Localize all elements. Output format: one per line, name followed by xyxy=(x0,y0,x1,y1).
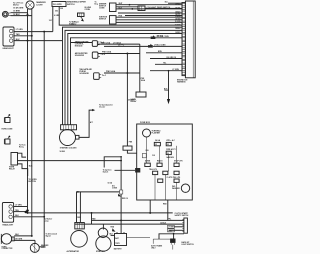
labels on alternator wires xyxy=(77,217,81,219)
inline connector on y37.8 xyxy=(151,37,156,40)
wire starter drop xyxy=(102,224,104,229)
svg-text:Signal: Signal xyxy=(46,235,52,237)
label pnk above inline box xyxy=(129,142,133,144)
wire starter to battery xyxy=(111,234,115,236)
wire: vertical bus A xyxy=(27,9,29,213)
svg-text:LT GRN: LT GRN xyxy=(172,69,179,71)
wire: lower headlight 2 xyxy=(14,211,28,213)
junction gnd bus A xyxy=(27,40,29,42)
wire step from relay xyxy=(18,153,27,157)
svg-text:CONNECTOR: CONNECTOR xyxy=(2,248,14,250)
junction x121 y156.8 xyxy=(120,156,122,158)
wiper washer circle xyxy=(181,184,189,192)
svg-text:W S WPR: W S WPR xyxy=(53,4,62,6)
label above y37.8 wire xyxy=(157,36,164,38)
text: w/s washer xyxy=(172,186,176,188)
labels lower headlight xyxy=(15,205,22,207)
wire: dimmer 2 to coolant switch xyxy=(116,6,138,8)
harness wire y13 xyxy=(118,12,182,14)
svg-text:20 BRN: 20 BRN xyxy=(128,99,135,101)
junction horn bus B xyxy=(31,235,33,237)
text: air diverter solenoid xyxy=(75,52,88,55)
text: to turn signal xyxy=(69,21,75,23)
wire into bulkhead y53 xyxy=(146,52,182,54)
label near riser xyxy=(49,20,53,22)
starter solenoid xyxy=(98,228,108,238)
label tail lps xyxy=(149,168,157,171)
wire: column 3 to bulkhead xyxy=(68,34,182,125)
text: to horn button xyxy=(29,179,38,181)
inline connector on y46.4 xyxy=(148,45,153,48)
harness wire y15.5 xyxy=(125,15,182,17)
svg-text:TO HORN: TO HORN xyxy=(29,179,38,181)
horn relay box xyxy=(136,92,146,97)
text: steering column xyxy=(60,147,77,149)
label blk starter xyxy=(110,233,114,235)
svg-text:CONN: CONN xyxy=(85,9,91,11)
wire: vertical bus B xyxy=(31,8,33,236)
svg-text:DK GRN 18: DK GRN 18 xyxy=(167,57,176,59)
flasher circle xyxy=(143,129,151,137)
wire ignition riser xyxy=(104,157,121,168)
coolant temp switch connector xyxy=(138,6,145,11)
wire y224.1 horizontal xyxy=(75,223,184,225)
marker light lamp xyxy=(26,1,34,9)
steering column body xyxy=(60,130,76,146)
labels bottom right wires xyxy=(168,219,172,221)
wire vertical x127.4 xyxy=(126,54,128,147)
inline connector box on x127.4 xyxy=(123,146,132,150)
fusebox internal wire 1 xyxy=(146,137,148,163)
label ppl on y46.4 xyxy=(118,45,125,47)
junction x121 y160.6 xyxy=(120,160,122,162)
svg-text:RED 10: RED 10 xyxy=(122,198,128,200)
label red x91 xyxy=(92,219,96,221)
text: engine ignition harness xyxy=(177,79,188,81)
wire: column 2 to bulkhead xyxy=(65,30,182,124)
wire: ignition 2 xyxy=(116,19,182,21)
fuse 11 xyxy=(174,179,179,182)
svg-text:FUSE BOX: FUSE BOX xyxy=(140,122,151,124)
wire bend into y213 xyxy=(14,212,28,213)
svg-text:YEL: YEL xyxy=(163,63,166,65)
svg-text:LT BLU CONN: LT BLU CONN xyxy=(154,45,166,47)
svg-text:CLSTR PNL LPS: CLSTR PNL LPS xyxy=(167,177,182,179)
text: to marker lamp xyxy=(44,218,53,220)
text: to horn relay xyxy=(19,145,26,147)
wire to backup switch xyxy=(173,234,175,239)
svg-text:WINDSHIELD WIPER: WINDSHIELD WIPER xyxy=(67,2,86,4)
fusebox internal wire 4 xyxy=(168,155,170,172)
fusebox internal wire 3 xyxy=(175,146,177,163)
label box lt grn backup xyxy=(168,225,175,228)
svg-text:PURGE: PURGE xyxy=(79,71,86,73)
wire x121 down to battery junction xyxy=(120,194,122,220)
label pnk y73 xyxy=(106,70,116,73)
label mid left xyxy=(60,150,66,153)
wire y170.3 into fusebox xyxy=(115,169,136,171)
wire y46.4 harness xyxy=(104,45,148,47)
wire elbow to horn button xyxy=(18,164,28,176)
bulkhead shell inner edge xyxy=(192,1,194,78)
svg-text:HORN CONN: HORN CONN xyxy=(2,129,14,131)
label ign fuse xyxy=(146,150,150,152)
wire y220.4 horizontal xyxy=(92,219,184,221)
svg-text:BLK: BLK xyxy=(16,39,20,41)
svg-text:20 PPL: 20 PPL xyxy=(118,45,125,47)
labels dome radio stop xyxy=(145,161,151,163)
headlight connector lower xyxy=(2,203,13,223)
svg-text:LIGHT SWITCH: LIGHT SWITCH xyxy=(182,244,195,246)
svg-text:CONN: CONN xyxy=(99,8,105,10)
wire: headlight hi beam xyxy=(14,31,53,33)
wire: hi beam riser to wiper switch xyxy=(52,7,54,32)
wire y73 horizontal xyxy=(104,72,140,74)
wire: lamp to bus B xyxy=(11,15,32,17)
label 6 grn xyxy=(54,15,60,17)
text: to directional signal xyxy=(46,232,58,235)
text: to wiper motor xyxy=(72,22,80,24)
svg-text:LT GRN: LT GRN xyxy=(16,29,23,31)
fuse 9 xyxy=(174,171,179,174)
wire: dimmer 3 xyxy=(116,8,182,10)
text: horn connector xyxy=(2,246,8,248)
wire backup 1 xyxy=(175,226,184,228)
wire label 18 dk grn xyxy=(13,8,24,10)
wire: alternator feed xyxy=(77,192,120,223)
label cig xyxy=(152,155,156,157)
wire: fusebox bottom to y213 junction xyxy=(149,200,151,214)
windshield wiper switch connector xyxy=(52,2,66,7)
arrow from inline connector xyxy=(81,17,84,20)
text: starter xyxy=(96,250,105,253)
svg-text:Relay: Relay xyxy=(19,146,24,148)
wire vertical x121.1 down xyxy=(120,157,122,190)
backup connector strip xyxy=(184,218,188,233)
text: battery label below xyxy=(114,247,123,250)
svg-text:DIMMER: DIMMER xyxy=(99,4,107,6)
bottom marker lamp xyxy=(30,243,39,252)
label blk dimmer xyxy=(119,7,123,9)
label 090 xyxy=(60,8,63,10)
junction marks y213 xyxy=(91,212,93,214)
bus C to lamp xyxy=(39,246,44,248)
text: alternator xyxy=(67,250,80,253)
svg-text:DOME: DOME xyxy=(145,161,151,163)
wire: column 4 to bulkhead xyxy=(71,38,151,125)
svg-text:LT GRN: LT GRN xyxy=(15,205,22,207)
fuse 4 xyxy=(145,163,151,166)
junction on y70.7 xyxy=(168,70,170,72)
text: horn conn xyxy=(2,129,14,131)
dimmer connector upper xyxy=(110,3,117,12)
svg-text:Lamp: Lamp xyxy=(44,220,49,222)
svg-text:CONTROL: CONTROL xyxy=(75,44,85,46)
svg-text:IN-LINE: IN-LINE xyxy=(85,7,92,9)
text: horn relay xyxy=(131,99,137,101)
svg-text:SWITCH: SWITCH xyxy=(99,6,107,8)
label 093 xyxy=(55,10,58,12)
long wire y160.6 xyxy=(18,160,122,162)
fuse 1 xyxy=(154,142,160,145)
bulkhead pin strip xyxy=(182,3,185,76)
label red arrow battery xyxy=(111,226,115,228)
text: tailgate air purge solenoid xyxy=(79,68,92,71)
junction lo beam bus B xyxy=(31,35,33,37)
svg-text:SWITCH: SWITCH xyxy=(67,4,75,6)
svg-text:SOLENOID: SOLENOID xyxy=(75,55,85,57)
steering column connector strip xyxy=(61,125,77,130)
text: marker light xyxy=(36,1,46,4)
small component inside fusebox left xyxy=(142,153,146,157)
text: back-up light switch xyxy=(182,241,191,244)
fuse 5 xyxy=(157,163,162,166)
text: coolant temp switch xyxy=(147,6,171,9)
fuse 6 xyxy=(174,163,179,166)
text: to lt front marker xyxy=(13,1,24,4)
junction battery drop xyxy=(120,219,122,221)
wire: alternator feed 2 branch xyxy=(79,192,81,223)
wire into bulkhead y64.3 xyxy=(155,63,182,65)
wire: wiper v2 to harness y25.1 xyxy=(59,7,182,26)
wire y53.5 harness xyxy=(98,53,140,55)
label wht dimmer xyxy=(119,3,124,5)
wire labels at bulkhead xyxy=(175,3,181,5)
svg-text:DK GRN: DK GRN xyxy=(15,239,23,241)
fusebox internal wire 7 xyxy=(175,182,177,200)
wire: lower headlight 3 xyxy=(14,216,45,218)
inline connector icon 2 xyxy=(5,139,10,144)
wire backup 3 xyxy=(159,234,184,239)
backup light switch xyxy=(170,239,175,243)
label 14 ga near x108 xyxy=(108,181,113,184)
svg-text:IGNITION: IGNITION xyxy=(99,17,108,19)
text: dimmer switch xyxy=(99,4,107,6)
svg-text:BUTTON: BUTTON xyxy=(29,181,37,183)
junction blk at bus C xyxy=(43,216,45,218)
wire auto trans bracket xyxy=(153,238,170,240)
wire down from bulkhead with arrow xyxy=(168,71,170,99)
text: headlight upper xyxy=(3,47,15,50)
junction backup xyxy=(173,233,175,235)
junction alternator feed xyxy=(77,191,79,193)
svg-text:12 BLK: 12 BLK xyxy=(160,222,167,224)
fuse box outline xyxy=(137,124,193,200)
arrow on A/T wire xyxy=(92,109,95,111)
svg-text:To Horn: To Horn xyxy=(19,145,26,147)
label red 12ga xyxy=(101,41,111,44)
alternator body xyxy=(71,231,88,248)
label after y46.4 connector xyxy=(154,45,166,47)
wire horn 1 xyxy=(14,235,32,237)
wire: ignition 1 xyxy=(116,16,182,18)
label after y37.8 connector xyxy=(157,36,170,38)
svg-text:LIGHT: LIGHT xyxy=(36,4,43,6)
fuse 3 xyxy=(166,151,171,154)
label red below fusebox xyxy=(163,203,167,205)
battery xyxy=(115,234,127,246)
inline connector icon 1 xyxy=(5,118,10,123)
starter body xyxy=(96,236,111,251)
svg-text:SPEEDOMETER: SPEEDOMETER xyxy=(75,42,89,44)
fusebox internal wire 5 xyxy=(154,175,156,200)
svg-text:093: 093 xyxy=(55,10,58,12)
label gauges xyxy=(166,156,174,159)
horn relay connector block xyxy=(11,153,18,166)
label 24 ga xyxy=(155,139,161,142)
wire from coolant switch xyxy=(145,7,182,9)
wire below backup switch xyxy=(172,245,174,250)
svg-text:MODULE: MODULE xyxy=(75,46,84,48)
text: to ignition switch xyxy=(103,168,112,171)
label ignition wires xyxy=(119,16,123,18)
text: turn haz flasher xyxy=(152,129,162,132)
svg-text:DK GRN CONN: DK GRN CONN xyxy=(157,36,170,38)
labels headlight upper xyxy=(16,29,23,31)
svg-text:090: 090 xyxy=(60,8,63,10)
svg-text:Eng: Eng xyxy=(95,3,98,5)
wire battery drop xyxy=(120,220,122,233)
text: windshield wiper switch xyxy=(67,2,86,4)
label pnk 16ga vertical xyxy=(141,78,145,80)
component: air purge connector xyxy=(94,73,100,80)
junction y53.5 xyxy=(126,53,128,55)
inline connector symbol x121 y190 xyxy=(120,190,123,194)
junction blob x27.5 y212 xyxy=(25,211,28,214)
wire horn 2 xyxy=(14,239,35,241)
text: marker light bottom xyxy=(41,244,49,247)
wire: lamp to bus A xyxy=(11,12,28,14)
fuse 2 xyxy=(166,142,171,145)
wire backup 2 xyxy=(169,229,184,231)
label a/c conn xyxy=(112,185,116,188)
svg-text:To Marker: To Marker xyxy=(44,218,53,220)
svg-text:SWITCH: SWITCH xyxy=(99,19,107,21)
wire x127 into fusebox xyxy=(127,150,136,153)
wire x91.5 drop xyxy=(91,213,93,224)
wire to A/T switch xyxy=(79,110,93,137)
text: headlight lower xyxy=(2,224,14,227)
text: ignition switch conn xyxy=(99,17,108,19)
label blk 10ga xyxy=(164,88,168,90)
wire: vertical bus C xyxy=(43,32,45,247)
fuse 7 xyxy=(153,171,158,174)
fuse 10 xyxy=(158,179,163,182)
wire label 18 blk xyxy=(13,14,20,16)
long horizontal y213.6 xyxy=(28,212,173,214)
wire: ignition 3 xyxy=(116,21,182,23)
svg-text:To: To xyxy=(95,2,97,4)
label blk xyxy=(29,165,33,167)
svg-text:CONN: CONN xyxy=(112,188,118,190)
horn xyxy=(1,234,11,244)
wire: fusebox bottom red xyxy=(167,200,169,220)
headlight connector upper xyxy=(3,27,14,46)
svg-text:STOP LPS: STOP LPS xyxy=(174,161,183,163)
label box grn backup xyxy=(168,229,175,232)
label clstr pnl lps xyxy=(167,177,182,179)
text: to speedometer cluster xyxy=(99,104,113,107)
wire into bulkhead y58.5 xyxy=(150,58,182,60)
svg-text:6 GRN: 6 GRN xyxy=(54,15,60,17)
label htr a-c xyxy=(166,139,175,142)
text: in-line conn xyxy=(85,7,92,9)
svg-text:HORN: HORN xyxy=(2,246,8,248)
text: horn relay left xyxy=(9,167,15,169)
text: speedometer control module xyxy=(75,42,89,44)
label pwr accy xyxy=(166,148,176,151)
wire: dimmer 1 xyxy=(116,4,182,6)
junction bus C xyxy=(43,31,45,33)
component: air diverter connector xyxy=(92,52,98,58)
label pnk 14ga y53 xyxy=(102,51,112,54)
svg-text:STEERING COLUMN: STEERING COLUMN xyxy=(60,147,77,149)
wire into bulkhead y70.7 xyxy=(150,70,182,72)
wire: stub to module xyxy=(71,42,93,44)
alternator top block xyxy=(75,223,85,229)
wire x139.8 to horn relay xyxy=(139,44,141,92)
wire into bottom lamp xyxy=(34,240,36,243)
wire: lower headlight 1 xyxy=(14,206,28,208)
text: clutch start safety switch xyxy=(175,212,189,215)
fusebox left edge entry connector xyxy=(135,168,140,173)
label 20 brn xyxy=(128,99,135,101)
fusebox internal wire 2 xyxy=(158,146,160,163)
wire label 18 brn xyxy=(13,11,20,13)
text: auto trans only xyxy=(151,245,163,248)
wire y44.1 harness xyxy=(98,43,140,45)
fusebox internal wire 6 xyxy=(164,175,166,200)
label A/T xyxy=(90,121,94,124)
wire: column 1 to bulkhead xyxy=(63,27,183,125)
component: washer inline connector xyxy=(78,13,85,17)
component: module connector xyxy=(92,41,97,47)
svg-text:18 DK GRN: 18 DK GRN xyxy=(13,8,24,10)
wire battery right xyxy=(127,237,151,239)
wire: headlight ground xyxy=(14,40,62,42)
top stub wire into bulkhead xyxy=(168,2,182,4)
bulkhead connector shell xyxy=(185,1,195,78)
svg-text:HORN: HORN xyxy=(9,167,15,169)
dimmer connector lower xyxy=(110,16,117,24)
svg-text:To Wiper: To Wiper xyxy=(72,22,80,24)
fuse 8 xyxy=(163,171,168,174)
svg-text:SOLENOID: SOLENOID xyxy=(79,73,89,75)
text: to eng xyxy=(95,2,97,4)
junction bus A xyxy=(27,14,29,16)
junction y73 xyxy=(126,72,128,74)
wire: headlight lo beam xyxy=(14,35,32,37)
lamp: left front park lamp xyxy=(2,11,8,17)
column side connector xyxy=(76,135,80,139)
label red 10 xyxy=(122,198,128,200)
svg-text:ENGINE IGN: ENGINE IGN xyxy=(177,79,188,81)
svg-text:Marker: Marker xyxy=(13,5,19,7)
labels horn wires xyxy=(15,234,19,236)
text: fuse box xyxy=(140,122,151,124)
